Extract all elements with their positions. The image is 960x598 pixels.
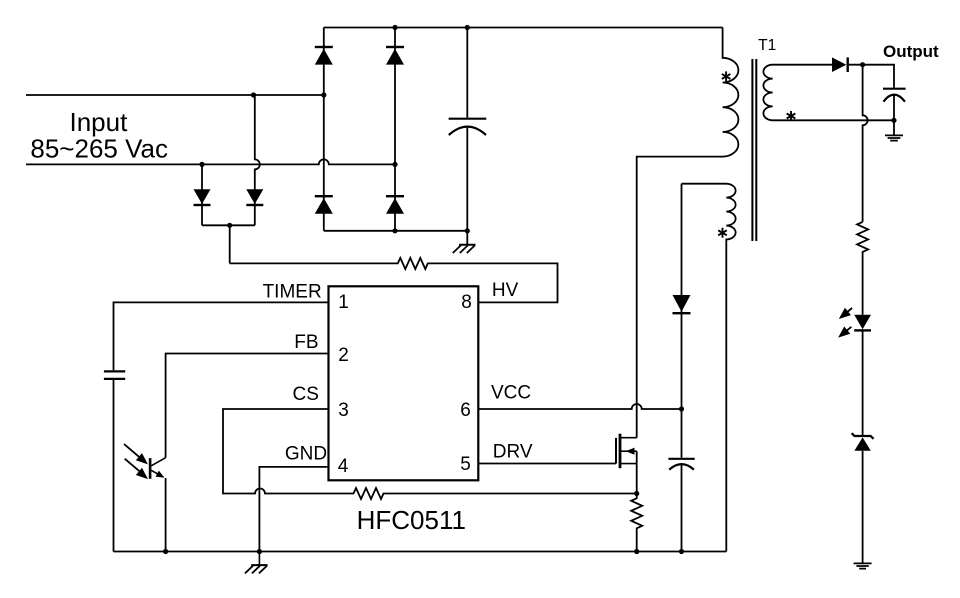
wire: protection diode cathode join [202,224,255,226]
ground (chassis, GND pin) [245,552,268,574]
node: bottom rail / GND ground [257,549,262,554]
diode D8 (output rectifier) [832,57,846,72]
svg-text:T1: T1 [758,37,776,54]
svg-text:85~265 Vac: 85~265 Vac [30,134,168,164]
wire: AC input line bottom (hops over bridge left column) [26,159,395,164]
svg-text:2: 2 [338,345,349,366]
wire: VCC from pin 6 (hops over drain vertical) [478,404,681,409]
LED D9 light arrows [838,308,852,339]
node: VCC [679,406,684,411]
svg-text:DRV: DRV [493,441,533,462]
wire: output node down (hops over secondary bottom lead) [863,65,868,222]
diode D4 (bridge lower right) [386,198,404,214]
svg-text:TIMER: TIMER [263,282,322,303]
diode D7 (aux/VCC rectifier) [673,295,691,312]
IC U1 HFC0511 body [329,286,479,480]
wire: secondary top lead + winding + bottom lead [763,65,894,121]
node: top input / bridge left column [321,92,326,97]
ground (output cap) [885,135,903,140]
svg-text:5: 5 [460,454,471,475]
wire: DRV pin 5 to MOSFET gate [478,463,616,465]
resistor R1 (startup, in HV run) and wire to pin 8 [230,258,558,303]
node: bottom rail / VCC cap [679,549,684,554]
polarity asterisk (primary) [722,71,731,81]
capacitor C2 (timer) plates [104,371,125,379]
svg-text:GND: GND [285,444,327,465]
wire: bridge right column [394,28,396,231]
diode D2 (bridge upper right) [386,49,404,65]
zener diode Z1 [852,433,874,451]
wire: VCC node to VCC capacitor [681,409,683,458]
node: output diode cathode [860,62,865,67]
LED D9 (optocoupler emitter) [854,315,871,330]
ground (secondary bottom) [854,563,872,568]
capacitor C1 (bulk) curved plate [449,127,486,135]
svg-text:HFC0511: HFC0511 [357,505,466,535]
node: top rail / bulk cap [465,25,470,30]
ground (chassis, bulk cap) [453,245,476,253]
optocoupler U2 light arrows [124,444,148,480]
capacitor C4 (output) curved plate [884,95,906,102]
optocoupler U2 phototransistor [150,458,166,481]
wire: aux diode branch to VCC node [681,184,683,409]
node: top input / protection branch [251,92,256,97]
capacitor C4 (output) plate [883,88,906,90]
resistor R5 (LED series) [857,222,868,315]
MOSFET Q1 [616,434,637,469]
svg-text:FB: FB [294,332,318,353]
wire: LED to zener [862,330,864,437]
wire: zener to secondary ground [862,451,864,564]
wire: aux winding top lead + winding + bottom lead to rail [682,184,736,552]
capacitor C1 (bulk) plate [449,118,487,120]
wire: bridge bottom rail [324,230,468,232]
wire: AC input line top [26,94,324,96]
node: output cap bottom / secondary return [891,118,896,123]
diode D5 (left protection) [194,189,211,204]
svg-text:Output: Output [883,42,939,61]
wire: CS pin 3 down and right (hops over GND drop), through R to MOSFET source node [223,409,637,499]
node: protection diode junction [227,223,232,228]
node: bottom rail / right column [392,228,397,233]
wire: left protection diode branch [201,164,203,225]
wire: bulk capacitor branch bottom [466,126,468,244]
resistor R4 (current sense) [631,494,642,552]
wire: output diode cathode to output capacitor corner [849,65,894,88]
wire: optocoupler emitter to bottom rail [165,478,167,552]
svg-text:8: 8 [461,292,472,313]
diode D6 (right protection) [246,189,263,204]
svg-text:4: 4 [338,456,349,477]
polarity asterisk (aux) [718,228,727,238]
wire: rectified top rail [324,27,723,29]
node: bottom input / left protection branch [199,162,204,167]
wire: timer capacitor to bottom rail [113,380,115,552]
node: bottom rail / bulk cap / chassis ground [465,228,470,233]
node: MOSFET source / CS [634,491,639,496]
svg-text:1: 1 [338,292,349,313]
wire: right protection diode branch (hops over bottom input line) [255,95,260,225]
polarity asterisk (secondary) [787,111,796,121]
diode D1 (bridge upper left) [315,49,333,65]
svg-text:6: 6 [460,400,471,421]
wire: FB pin 2 to optocoupler collector [166,354,329,458]
wire: VCC capacitor to bottom rail [681,464,683,552]
svg-text:CS: CS [292,384,318,405]
node: bottom rail / opto emitter [163,549,168,554]
wire: bridge left column [323,28,325,231]
wire: output capacitor to ground node [893,94,895,135]
svg-text:VCC: VCC [491,383,531,404]
svg-text:HV: HV [492,280,519,301]
svg-text:3: 3 [338,400,349,421]
wire: bulk capacitor branch top [466,28,468,118]
node: bottom input / bridge right column [392,162,397,167]
wire: junction stub down to startup resistor run [229,225,231,263]
wire: TIMER pin 1 to left column [114,302,329,370]
node: top rail / right column [392,25,397,30]
transformer T1 core [752,59,756,241]
capacitor C3 (VCC) curved plate [669,464,694,470]
svg-text:Input: Input [69,107,128,137]
wire: MOSFET source vertical to CS node [636,451,638,493]
node: bottom rail / sense resistor [634,549,639,554]
wire: GND pin 4 down to bottom rail [259,467,328,552]
diode D3 (bridge lower left) [315,198,333,214]
capacitor C3 (VCC) plate [668,458,694,460]
wire: primary top lead + winding + bottom lead + drain vertical [637,28,739,438]
wire: bottom primary rail [114,551,727,553]
